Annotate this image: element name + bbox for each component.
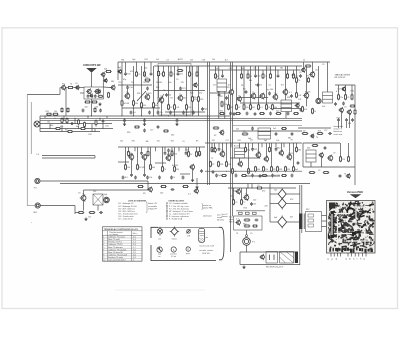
- resistor R36b: [308, 77, 310, 83]
- transistor Q21: [309, 71, 315, 78]
- svg-text:4k7: 4k7: [290, 217, 293, 219]
- wire: [188, 147, 190, 152]
- resistor b2 R10: [199, 151, 201, 157]
- capacitor C25: [259, 174, 262, 178]
- resistor R49: [162, 166, 167, 173]
- wire stub: [196, 178, 198, 185]
- capacitor C2: [94, 94, 97, 98]
- svg-text:470: 470: [213, 84, 216, 86]
- svg-text:Collecteur T4 push-pull: Collecteur T4 push-pull: [108, 253, 127, 256]
- capacitor b2r low C7: [271, 174, 280, 178]
- table column rule 1: [107, 231, 109, 261]
- transistor Q20: [301, 67, 306, 73]
- wire: [275, 66, 277, 95]
- svg-text:22n: 22n: [303, 131, 306, 133]
- svg-text:AC127: AC127: [234, 145, 240, 148]
- svg-text:56k: 56k: [183, 97, 186, 99]
- capacitor b2r low C5: [251, 174, 254, 178]
- resistor R55: [226, 161, 232, 168]
- rectifier bridge D2: [277, 197, 288, 209]
- wire: [322, 226, 327, 228]
- wire: [322, 220, 327, 222]
- svg-text:C9: C9: [75, 83, 77, 85]
- transformer lamination line: [303, 214, 305, 230]
- wire b2r stub 8: [275, 143, 277, 147]
- svg-text:1n5: 1n5: [88, 217, 91, 219]
- svg-text:C5: C5: [182, 141, 184, 143]
- svg-text:Collecteur T2 FI-2: Collecteur T2 FI-2: [108, 243, 122, 246]
- wire b2r stub 4: [245, 143, 247, 147]
- svg-text:15k: 15k: [241, 68, 244, 70]
- svg-text:0.1: 0.1: [269, 85, 272, 87]
- svg-text:2k2: 2k2: [236, 129, 239, 131]
- wire: [338, 85, 340, 95]
- svg-text:2 Watts PP: 2 Watts PP: [148, 207, 158, 210]
- svg-text:10k: 10k: [276, 140, 279, 142]
- resistor hang R9: [196, 71, 198, 77]
- svg-text:C41: C41: [298, 99, 301, 101]
- svg-text:3n3: 3n3: [170, 150, 173, 152]
- transistor Q34: [263, 156, 269, 163]
- wire band2 rail left: [118, 146, 205, 148]
- transistor Q17: [272, 93, 278, 101]
- wire: [348, 143, 350, 157]
- wire band2 mid link: [230, 157, 260, 159]
- svg-text:R31: R31: [220, 164, 223, 166]
- svg-text:R31: R31: [121, 59, 124, 61]
- resistor R63: [293, 166, 299, 173]
- wire: [65, 87, 67, 89]
- resistor hang Rr6: [262, 73, 267, 79]
- wire mesh link 3: [210, 92, 232, 94]
- svg-text:TABLEAU SERIE: TABLEAU SERIE: [335, 74, 351, 77]
- capacitor b2r C8: [275, 147, 278, 151]
- capacitor low C2: [148, 111, 151, 115]
- resistor hang Rr9: [287, 73, 289, 79]
- wire: [258, 66, 260, 105]
- transistor Q2b: [97, 89, 101, 94]
- svg-text:220: 220: [216, 76, 219, 78]
- capacitor C6: [123, 119, 126, 123]
- capacitor b2 C3: [140, 151, 143, 155]
- meter M1: [316, 98, 321, 103]
- wire feed stub 9: [196, 66, 198, 72]
- capacitor b2 low C5: [170, 176, 175, 180]
- svg-text:BC148: BC148: [172, 165, 178, 167]
- svg-text:470: 470: [130, 71, 133, 73]
- wire: [158, 76, 160, 98]
- capacitor C26: [297, 161, 300, 165]
- wire: [233, 188, 235, 200]
- svg-text:C28: C28: [202, 60, 205, 62]
- voltage table frame: [103, 227, 143, 261]
- capacitor C23: [200, 169, 203, 173]
- PCB pin leads group 1: [331, 253, 341, 257]
- svg-text:3n3: 3n3: [322, 106, 325, 108]
- resistor R73: [182, 186, 189, 188]
- wire: [340, 143, 342, 157]
- resistor R58: [255, 166, 261, 173]
- wire: [288, 193, 300, 195]
- resistor hang R6: [170, 71, 175, 77]
- svg-text:R7: R7: [238, 107, 240, 109]
- transformer T5 diagonals: [93, 194, 103, 205]
- resistor R18: [153, 102, 159, 109]
- legend column 2 marker 4: [166, 210, 167, 211]
- wire: [270, 221, 277, 223]
- svg-text:C41: C41: [176, 107, 179, 109]
- svg-text:22n: 22n: [230, 196, 233, 198]
- wire: [102, 76, 104, 87]
- resistor hang Rr10: [293, 73, 299, 79]
- PCB bottom pad row: [329, 248, 373, 253]
- wire: [281, 143, 283, 151]
- resistor R9: [61, 118, 63, 124]
- wire: [306, 98, 308, 107]
- svg-text:R31: R31: [220, 111, 223, 113]
- PCB pin leads group 2: [348, 253, 366, 257]
- ground: [195, 185, 198, 188]
- resistor b2 low R2: [221, 175, 227, 177]
- svg-text:T3: T3: [179, 94, 181, 96]
- transistor Q37: [318, 152, 323, 158]
- wire: [131, 159, 133, 173]
- capacitor low Cr2: [229, 112, 232, 116]
- wire: [240, 264, 300, 266]
- junction dot: [186, 116, 187, 117]
- mains transformer hatch: [280, 252, 294, 264]
- wire b2r stub 1: [211, 143, 213, 147]
- svg-text:R25: R25: [190, 93, 193, 95]
- resistor R62: [285, 166, 291, 173]
- svg-text:T2: T2: [243, 202, 245, 204]
- wire LS pair top: [42, 155, 95, 157]
- svg-text:470: 470: [243, 131, 246, 133]
- svg-text:100: 100: [144, 68, 147, 70]
- transistor Q41: [147, 186, 152, 192]
- svg-text:R9: R9: [273, 169, 275, 171]
- wire b2 stub 2: [134, 147, 136, 151]
- resistor R56: [232, 168, 237, 175]
- resistor R16: [133, 100, 139, 107]
- transistor Q30: [211, 147, 216, 153]
- svg-text:600 ohms: 600 ohms: [217, 219, 224, 221]
- svg-text:68k: 68k: [143, 74, 146, 76]
- wire b2 stub 8: [178, 147, 180, 151]
- svg-text:R21: R21: [233, 191, 236, 193]
- resistor R44: [317, 131, 324, 135]
- svg-text:R7: R7: [291, 140, 293, 142]
- wire: [192, 169, 194, 178]
- svg-text:0.1: 0.1: [188, 194, 191, 196]
- wire feed stub r5: [255, 66, 257, 74]
- junction dot: [293, 171, 294, 172]
- wire drop: [65, 88, 67, 117]
- wire: [40, 205, 75, 207]
- table row rule 2: [103, 240, 143, 242]
- wire long vertical C: [230, 62, 232, 252]
- ground: [84, 217, 87, 220]
- wire bus stub: [49, 124, 51, 129]
- resistor R32: [258, 104, 263, 111]
- connector pin 2: [308, 219, 314, 222]
- svg-text:22n: 22n: [340, 97, 343, 99]
- junction dot: [224, 118, 225, 119]
- wire band2 bottom rail: [205, 170, 302, 172]
- transistor Q45: [235, 219, 240, 225]
- svg-text:B 6 - Transfo sortie: B 6 - Transfo sortie: [119, 215, 134, 218]
- wire: [218, 92, 220, 119]
- resistor R10: [66, 118, 68, 124]
- wire mesh: [118, 161, 129, 163]
- resistor R3: [91, 101, 98, 103]
- svg-text:MIC: MIC: [34, 212, 38, 214]
- svg-text:220: 220: [253, 200, 256, 202]
- capacitor b2 C6: [164, 151, 167, 155]
- capacitor C19b: [351, 118, 354, 122]
- capacitor b2 low C4: [158, 176, 161, 180]
- capacitor hang Cr5: [254, 74, 260, 78]
- mains plug pins: [269, 255, 271, 261]
- svg-text:filament via: filament via: [334, 130, 343, 133]
- capacitor C18: [345, 118, 348, 122]
- symbol clock dial: [157, 247, 162, 252]
- capacitor C24: [212, 170, 215, 174]
- transistor Q26: [128, 153, 134, 161]
- wire: [168, 153, 170, 156]
- wire: [74, 87, 84, 89]
- regulator row rect 1: [239, 212, 243, 214]
- resistor R6: [67, 87, 74, 89]
- transistor Q42: [193, 188, 198, 194]
- wire long vertical A: [207, 62, 209, 185]
- svg-text:T4: T4: [344, 174, 346, 176]
- wire: [293, 143, 295, 167]
- svg-text:R31: R31: [279, 169, 282, 171]
- svg-text:220: 220: [93, 191, 96, 193]
- capacitor mid C4: [268, 92, 271, 96]
- wire: [236, 66, 238, 105]
- transistor Q11: [177, 94, 183, 102]
- wire b2r stub 3: [230, 143, 232, 147]
- svg-text:C5: C5: [138, 74, 140, 76]
- svg-text:56k: 56k: [274, 107, 277, 109]
- resistor b2r R4: [245, 147, 251, 153]
- transistor Q28: [165, 153, 173, 162]
- rectifier bridge D3: [276, 215, 288, 228]
- resistor R31: [250, 104, 256, 111]
- junction dot: [64, 116, 65, 117]
- wire feed stub 6: [170, 66, 172, 72]
- svg-text:10k: 10k: [54, 111, 57, 113]
- transistor Q27: [141, 154, 147, 161]
- resistor R19: [144, 77, 151, 81]
- svg-text:tension 7 V: tension 7 V: [334, 128, 343, 131]
- driver transformer T2: [281, 100, 292, 112]
- resistor b2r R10: [296, 147, 302, 153]
- wire: [258, 143, 260, 153]
- svg-text:C17: C17: [150, 130, 153, 132]
- capacitor C30: [171, 188, 175, 191]
- capacitor C17: [337, 118, 340, 122]
- capacitor C19: [328, 132, 332, 135]
- svg-text:C17: C17: [315, 70, 318, 72]
- svg-text:C5: C5: [257, 185, 259, 187]
- svg-text:Collecteur T3 preampl.: Collecteur T3 preampl.: [108, 248, 127, 251]
- junction dot: [153, 116, 154, 117]
- wire bus 2: [40, 117, 230, 119]
- capacitor low Cr4: [246, 112, 249, 116]
- svg-text:Volt +-: Volt +-: [133, 232, 139, 235]
- svg-text:T4: T4: [238, 95, 240, 97]
- capacitor C19d: [342, 102, 345, 106]
- PCB pin labels group 1: [327, 258, 337, 261]
- wire: [75, 212, 79, 214]
- resistor interband R2: [242, 131, 249, 135]
- resistor low Rr1: [219, 111, 225, 115]
- resistor R25: [192, 96, 198, 103]
- svg-text:R12: R12: [230, 107, 233, 109]
- svg-text:2k2: 2k2: [180, 73, 183, 75]
- svg-text:TENSIONS AU CONTROLEUR 20 k: TENSIONS AU CONTROLEUR 20 kO/V: [104, 228, 139, 231]
- wire drop: [338, 122, 340, 128]
- wire: [243, 66, 245, 105]
- transistor Q5: [110, 84, 115, 90]
- resistor R40: [338, 94, 344, 101]
- capacitor C27: [324, 146, 327, 150]
- wire: [161, 102, 163, 116]
- BF module outline: [84, 87, 103, 99]
- svg-text:68k: 68k: [249, 80, 252, 82]
- wire: [247, 184, 249, 189]
- svg-text:Tous les cond. en pF: Tous les cond. en pF: [199, 245, 214, 247]
- legend column 2 marker 5: [166, 213, 167, 214]
- wire: [310, 162, 312, 167]
- svg-text:T4: T4: [316, 137, 318, 139]
- svg-text:R31: R31: [156, 87, 159, 89]
- svg-text:220: 220: [188, 107, 191, 109]
- capacitor low C5: [182, 111, 188, 115]
- svg-text:liaison: liaison: [229, 217, 234, 219]
- svg-text:BC148: BC148: [124, 103, 130, 105]
- wire: [302, 143, 304, 167]
- resistor R1: [98, 95, 104, 97]
- svg-text:0.1: 0.1: [236, 219, 239, 221]
- transistor Q46: [259, 254, 264, 260]
- resistor b2r R1: [211, 147, 213, 153]
- wire b2 stub 6: [164, 147, 166, 151]
- svg-text:22n: 22n: [145, 77, 148, 79]
- capacitor C13: [233, 112, 236, 116]
- resistor R39: [312, 108, 317, 115]
- faint scan ghost line: [115, 289, 205, 291]
- wire: [239, 143, 241, 148]
- resistor R2: [84, 101, 91, 103]
- wire: [192, 66, 194, 97]
- resistor R68: [323, 172, 330, 174]
- PCB copper trace artwork: [328, 201, 375, 251]
- svg-text:R25: R25: [337, 118, 340, 120]
- wire bus drop: [61, 126, 63, 132]
- svg-text:redress.: redress.: [172, 238, 178, 240]
- coil L1 core lines: [306, 153, 316, 155]
- svg-text:R7: R7: [190, 154, 192, 156]
- svg-text:1/4 W 10%: 1/4 W 10%: [202, 253, 210, 255]
- resistor R53: [210, 161, 215, 168]
- connector pin 3: [308, 224, 314, 227]
- wire LS pair bottom: [42, 157, 95, 159]
- resistor R71: [137, 186, 144, 188]
- svg-text:4k7: 4k7: [225, 59, 228, 61]
- svg-text:8p2: 8p2: [118, 67, 121, 69]
- wire: [214, 143, 216, 148]
- transistor Q31: [219, 150, 225, 158]
- wire: [103, 86, 111, 89]
- resistor R24: [177, 70, 184, 72]
- transistor Q44: [243, 193, 249, 201]
- svg-text:F - Fusible 0,5 A: F - Fusible 0,5 A: [169, 218, 183, 221]
- junction dot: [133, 116, 134, 117]
- junction dot: [100, 118, 101, 119]
- resistor R36: [296, 92, 302, 99]
- wire bus 5: [40, 128, 113, 130]
- resistor R77: [244, 219, 251, 221]
- wire mesh link 4: [237, 97, 268, 99]
- wire drop: [349, 114, 351, 128]
- wire: [239, 252, 241, 265]
- capacitor C3b: [99, 109, 102, 113]
- wire bus stub: [94, 129, 96, 132]
- svg-text:R21: R21: [171, 141, 174, 143]
- svg-text:R31: R31: [46, 111, 49, 113]
- capacitor C3a: [82, 109, 85, 113]
- wire b2 stub 10: [199, 147, 201, 151]
- IF transformer T4: [235, 148, 245, 158]
- IF transformer T4 core lines: [235, 150, 245, 152]
- wire bus stub: [44, 116, 46, 118]
- svg-text:15k: 15k: [194, 99, 197, 101]
- svg-text:HP - Haut-parl. 12 cm 5 ohms: HP - Haut-parl. 12 cm 5 ohms: [169, 210, 193, 213]
- wire left bus B: [30, 102, 32, 154]
- svg-text:CIRCUITS BF: CIRCUITS BF: [83, 63, 101, 67]
- resistor b2 low R6: [262, 175, 268, 177]
- resistor R12: [55, 128, 61, 130]
- wire: [318, 66, 320, 98]
- svg-text:R3: R3: [220, 96, 222, 98]
- transistor Q39: [346, 173, 351, 179]
- interband coil box core lines: [258, 131, 271, 133]
- PCB pin labels group 2: [345, 258, 366, 261]
- transistor Q32: [237, 161, 242, 168]
- wire mesh: [180, 173, 190, 175]
- svg-text:C9: C9: [322, 64, 324, 66]
- svg-text:5p6: 5p6: [132, 59, 135, 61]
- junction dot: [168, 116, 169, 117]
- transistor Q15: [250, 92, 256, 100]
- svg-text:1k: 1k: [303, 60, 305, 62]
- wire feed stub r7: [270, 66, 272, 74]
- symbol battery tube: [199, 228, 205, 242]
- wire: [269, 194, 271, 222]
- wire mesh: [246, 175, 280, 177]
- resistor R5: [108, 92, 110, 99]
- PCB mounting pad: [329, 203, 336, 209]
- transistor Q38: [327, 155, 333, 162]
- capacitor C10b: [143, 129, 146, 133]
- transistor Q18: [282, 89, 288, 96]
- svg-text:330: 330: [307, 148, 310, 150]
- legend column 2 marker 7: [166, 218, 167, 219]
